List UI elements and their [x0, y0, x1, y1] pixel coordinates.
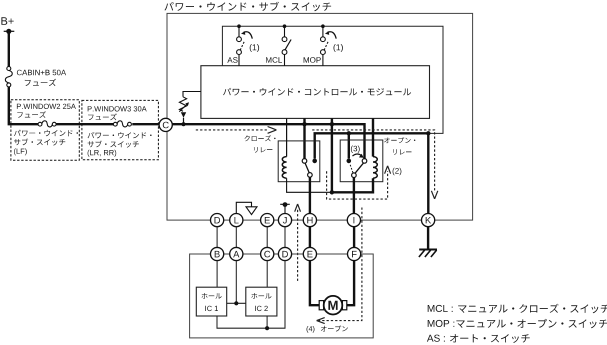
wire B+ down to fuse F1	[8, 31, 10, 66]
label close relay	[245, 135, 276, 153]
wire A to hall IC junction	[227, 260, 246, 305]
connector node C (motor unit row)	[261, 247, 274, 260]
dashed route (2) around open relay with up arrow	[327, 166, 391, 199]
wire main power from node C to open relay contact	[171, 124, 364, 158]
wire B to hall IC1	[216, 260, 218, 287]
wire open relay output to connector I	[353, 178, 355, 214]
wire close relay coil to junction	[287, 178, 332, 192]
wire close relay output to connector H	[309, 177, 311, 214]
connector node D (motor unit row)	[278, 247, 291, 260]
node C connector	[159, 118, 172, 131]
switch AS auto switch with actuation arrow	[227, 24, 252, 65]
connector node K (sub switch row)	[422, 214, 435, 227]
switch MCL manual close switch	[266, 24, 291, 65]
hall IC2 box	[246, 287, 277, 316]
wire open relay coil to module	[372, 118, 374, 156]
close relay coil	[282, 157, 286, 179]
wire close relay coil to module	[286, 118, 288, 156]
connector node H (sub switch row)	[303, 214, 316, 227]
motor unit box	[190, 254, 374, 338]
label power window sub switch (LR RR)	[88, 132, 152, 157]
hall IC1 box	[196, 287, 226, 316]
wire contact bus from close relay to node K line	[315, 133, 429, 158]
connector node F (motor unit row)	[348, 247, 361, 260]
label P.WINDOW3 30A fuse	[88, 106, 147, 120]
dashed route arrow to close relay	[196, 127, 277, 134]
label (4) open	[307, 326, 348, 333]
label (2)	[393, 168, 402, 176]
close relay contacts and blade	[302, 159, 317, 178]
label (1) near MOP	[334, 44, 343, 52]
connector node B (motor unit row)	[211, 247, 224, 260]
label power window sub switch (LF)	[14, 130, 78, 156]
ground symbol below connector K	[419, 227, 437, 258]
label open relay	[384, 137, 415, 155]
open relay box	[340, 140, 383, 182]
legend MCL manual close switch	[428, 304, 607, 314]
open relay contacts and blade	[347, 159, 367, 178]
connector node D (sub switch row)	[211, 214, 224, 227]
connector node A (motor unit row)	[230, 247, 243, 260]
dashed route along top to K with down arrow	[312, 130, 438, 199]
wire H to E inter-connector	[309, 227, 311, 248]
dashed box P.WINDOW3 fuse	[82, 100, 158, 159]
wire D to hall IC grounds	[217, 260, 285, 330]
open relay coil	[373, 157, 377, 179]
label power window control module	[223, 88, 411, 96]
inner box switch assembly	[222, 26, 443, 133]
wire to connector K	[427, 133, 429, 214]
label CABIN+B 50A fuse	[17, 70, 66, 86]
outer box power window sub switch unit	[167, 13, 473, 220]
wire I to F inter-connector	[353, 227, 355, 248]
connector node J (sub switch row)	[278, 214, 291, 227]
junction node relay coils common	[330, 190, 334, 194]
connector node L (sub switch row)	[230, 214, 243, 227]
wire F3 to node C	[132, 123, 160, 125]
terminal symbol above connector J	[280, 202, 290, 213]
label (3) on open relay	[351, 146, 360, 154]
label title power window sub switch	[165, 2, 332, 12]
fuse F3 P.WINDOW3 30A	[113, 121, 131, 127]
wire power to close relay left contact	[303, 124, 305, 158]
wire power down to relay coil common	[331, 124, 333, 192]
legend AS auto switch	[427, 334, 530, 343]
label (1) near AS	[250, 44, 259, 52]
resistor R1 (variable)	[179, 97, 189, 112]
dashed route up arrow near connector H	[295, 204, 301, 281]
module box	[201, 66, 430, 119]
motor M window motor	[319, 296, 347, 315]
wire J to D inter-connector	[284, 227, 286, 248]
wire E to motor left brush	[310, 260, 319, 305]
connector node E (motor unit row)	[303, 247, 316, 260]
wire D to B inter-connector	[216, 227, 218, 248]
open relay actuation arrow (3)	[353, 154, 364, 158]
dashed box P.WINDOW2 fuse	[11, 100, 79, 160]
terminal B+ (battery feed)	[4, 29, 15, 34]
wire L to A inter-connector	[235, 227, 237, 248]
close relay box	[278, 141, 320, 182]
junction node on power wire at module pin 2	[330, 118, 334, 126]
wire open relay coil to junction	[332, 178, 373, 192]
wire E to C inter-connector	[266, 227, 268, 248]
wire module to resistor R1	[183, 92, 201, 97]
connector node E (sub switch row)	[261, 214, 274, 227]
arrow connection of R1 onto B+ wire	[181, 112, 186, 126]
fuse F1 CABIN+B 50A	[5, 67, 12, 87]
wire F to motor box edge	[361, 253, 374, 255]
wire F2 to F3	[56, 123, 113, 125]
legend MOP manual open switch	[428, 319, 607, 328]
switch MOP manual open switch with actuation arrow	[304, 24, 337, 65]
wire F1 to corner to fuse F2	[9, 87, 38, 124]
signal symbol above connector L	[236, 202, 257, 214]
wire C to hall IC2	[266, 260, 268, 287]
connector node I (sub switch row)	[347, 214, 360, 227]
label P.WINDOW2 25A fuse	[17, 104, 76, 118]
junction node K wire	[426, 131, 430, 135]
label B+	[1, 17, 13, 25]
fuse F2 P.WINDOW2 25A	[38, 121, 56, 127]
junction node on power wire at module pin 1	[302, 118, 306, 126]
dashed route (4) open to motor with left arrow	[317, 208, 362, 324]
junction node open relay left contact feed	[347, 131, 351, 159]
wire F to motor right brush	[347, 260, 354, 305]
